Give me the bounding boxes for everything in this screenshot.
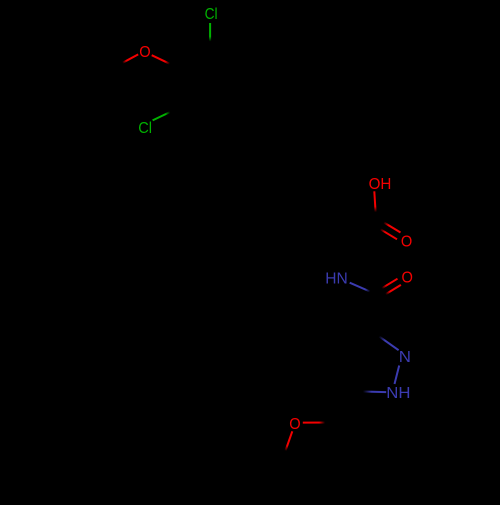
double bond amide C=O line 2 — [381, 285, 401, 297]
svg-text:HN: HN — [325, 270, 348, 287]
bond N1-C5 — [353, 390, 386, 393]
amide carbon to pyrazole wire — [372, 295, 379, 331]
bond O-CH3 methoxy — [115, 54, 138, 66]
svg-text:Cl: Cl — [205, 6, 218, 23]
svg-text:NH: NH — [386, 385, 410, 402]
svg-text:O: O — [402, 270, 413, 287]
bond N-amideC — [350, 283, 378, 295]
double bond amide C=O line 1 — [378, 279, 398, 291]
pyrazole carbon edges — [342, 331, 371, 391]
chain wire ring to alpha carbon — [243, 106, 376, 278]
double bond acid C=O line 1 — [379, 220, 401, 233]
bond O-H to acid carbon — [374, 191, 376, 222]
bond O-C2 methoxy — [152, 55, 179, 68]
svg-text:O: O — [139, 44, 150, 61]
pyrazole C5 to ether CH2 wire — [336, 391, 354, 422]
svg-text:Cl: Cl — [138, 120, 152, 137]
bond O-CH3 ether — [282, 431, 292, 460]
benzene ring carbons — [178, 50, 243, 125]
bond N1-N2 — [395, 366, 400, 385]
svg-text:O: O — [289, 416, 300, 433]
bond O-CH2 ether — [303, 422, 336, 424]
bond pyrazole C3-N2 — [372, 331, 399, 350]
svg-text:OH: OH — [369, 176, 392, 193]
bond C3-Cl bottom — [153, 108, 179, 120]
double bond acid C=O line 2 — [376, 226, 398, 239]
svg-text:O: O — [401, 233, 412, 250]
svg-text:N: N — [399, 349, 411, 366]
bond C1-Cl top — [209, 23, 211, 50]
